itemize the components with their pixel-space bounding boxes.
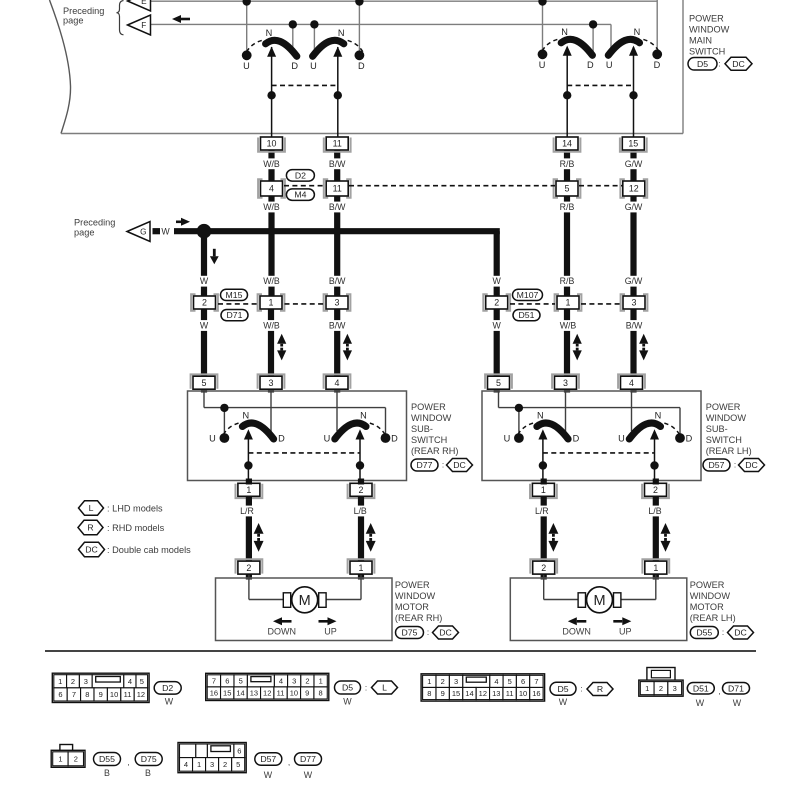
svg-text:D: D — [654, 60, 661, 70]
svg-text:2: 2 — [305, 677, 309, 686]
svg-text:1: 1 — [359, 563, 364, 573]
svg-text:10: 10 — [519, 689, 527, 698]
svg-text:G/W: G/W — [625, 202, 643, 212]
svg-text:SUB-: SUB- — [706, 424, 728, 434]
svg-text:WINDOW: WINDOW — [689, 25, 730, 35]
svg-text:4: 4 — [335, 378, 340, 388]
svg-text:W/B: W/B — [560, 321, 577, 331]
svg-text:(REAR LH): (REAR LH) — [706, 446, 752, 456]
svg-text:2: 2 — [659, 684, 663, 693]
svg-text:D71: D71 — [728, 683, 744, 693]
svg-text:D2: D2 — [295, 171, 306, 181]
svg-text:6: 6 — [225, 677, 229, 686]
svg-text:Preceding: Preceding — [74, 218, 115, 228]
svg-text:4: 4 — [629, 378, 634, 388]
svg-text:D2: D2 — [162, 683, 173, 693]
svg-text:D77: D77 — [300, 754, 316, 764]
svg-text:POWER: POWER — [395, 580, 430, 590]
svg-text:MOTOR: MOTOR — [690, 602, 724, 612]
svg-text::: : — [734, 461, 736, 470]
svg-text::: : — [442, 461, 444, 470]
svg-text:F: F — [141, 21, 146, 30]
svg-text:2: 2 — [541, 563, 546, 573]
svg-text:(REAR RH): (REAR RH) — [411, 446, 458, 456]
svg-text:9: 9 — [99, 690, 103, 699]
svg-text:16: 16 — [532, 689, 540, 698]
svg-text:D: D — [278, 433, 285, 443]
svg-text:DC: DC — [745, 460, 758, 470]
svg-text::: : — [718, 60, 720, 69]
svg-text:W: W — [696, 698, 705, 708]
svg-text:12: 12 — [137, 690, 145, 699]
svg-text:11: 11 — [333, 184, 342, 194]
svg-text:W: W — [493, 321, 502, 331]
svg-text:R: R — [87, 523, 93, 533]
svg-text:15: 15 — [452, 689, 460, 698]
svg-text:2: 2 — [223, 760, 227, 769]
svg-text:3: 3 — [563, 378, 568, 388]
svg-text:POWER: POWER — [689, 14, 724, 24]
svg-text:13: 13 — [492, 689, 500, 698]
svg-text:8: 8 — [85, 690, 89, 699]
svg-text:L/R: L/R — [240, 506, 254, 516]
svg-text:1: 1 — [319, 677, 323, 686]
svg-text:W/B: W/B — [263, 159, 280, 169]
svg-text:W: W — [200, 321, 209, 331]
svg-text:8: 8 — [427, 689, 431, 698]
svg-text:WINDOW: WINDOW — [706, 413, 747, 423]
svg-text:: RHD models: : RHD models — [107, 523, 165, 533]
svg-text:11: 11 — [333, 139, 342, 149]
svg-text:3: 3 — [673, 684, 677, 693]
svg-text:D71: D71 — [227, 310, 243, 320]
svg-text:15: 15 — [223, 689, 231, 698]
svg-text:R/B: R/B — [560, 202, 575, 212]
svg-text:5: 5 — [508, 677, 512, 686]
svg-text::: : — [580, 685, 582, 694]
svg-text:D77: D77 — [417, 460, 433, 470]
svg-text:1: 1 — [58, 677, 62, 686]
svg-text:SUB-: SUB- — [411, 424, 433, 434]
svg-text:12: 12 — [263, 689, 271, 698]
svg-text:10: 10 — [267, 139, 277, 149]
svg-text::: : — [427, 628, 429, 637]
svg-text:D: D — [358, 61, 365, 71]
svg-text:M: M — [299, 593, 311, 609]
svg-text:B: B — [104, 768, 110, 778]
svg-text:MOTOR: MOTOR — [395, 602, 429, 612]
svg-text:R/B: R/B — [560, 276, 575, 286]
svg-text:1: 1 — [246, 485, 251, 495]
svg-text:,: , — [718, 686, 720, 696]
svg-text:N: N — [634, 27, 641, 37]
svg-text:3: 3 — [210, 760, 214, 769]
svg-text:10: 10 — [110, 690, 118, 699]
svg-text:W: W — [200, 276, 209, 286]
svg-text:D: D — [391, 433, 398, 443]
svg-text:1: 1 — [566, 298, 571, 308]
svg-text:POWER: POWER — [411, 402, 446, 412]
svg-text:M: M — [593, 593, 605, 609]
svg-text:B/W: B/W — [626, 321, 643, 331]
svg-text:D75: D75 — [402, 628, 418, 638]
svg-text:MAIN: MAIN — [689, 36, 712, 46]
svg-text:B/W: B/W — [329, 321, 346, 331]
svg-text:POWER: POWER — [690, 580, 725, 590]
svg-text:M4: M4 — [294, 190, 306, 200]
svg-text:4: 4 — [279, 677, 283, 686]
svg-text:D55: D55 — [99, 754, 115, 764]
svg-text:B/W: B/W — [329, 276, 346, 286]
svg-text:1: 1 — [58, 755, 62, 764]
svg-text::: : — [722, 628, 724, 637]
svg-text:13: 13 — [250, 689, 258, 698]
svg-text:N: N — [242, 411, 249, 421]
svg-text:7: 7 — [72, 690, 76, 699]
svg-text:5: 5 — [565, 184, 570, 194]
svg-text:14: 14 — [236, 689, 244, 698]
svg-text:N: N — [655, 411, 662, 421]
svg-text:B/W: B/W — [329, 159, 346, 169]
svg-text:D: D — [587, 60, 594, 70]
svg-text:U: U — [618, 433, 625, 443]
svg-text:N: N — [561, 27, 568, 37]
svg-text:2: 2 — [202, 298, 207, 308]
svg-text:D57: D57 — [709, 460, 725, 470]
svg-text:D5: D5 — [557, 684, 568, 694]
svg-text:SWITCH: SWITCH — [689, 47, 725, 57]
svg-text:U: U — [243, 61, 250, 71]
svg-text:DOWN: DOWN — [268, 627, 297, 637]
svg-text:W: W — [343, 697, 352, 707]
svg-text:U: U — [504, 433, 511, 443]
svg-text:5: 5 — [202, 378, 207, 388]
svg-text:U: U — [539, 60, 546, 70]
svg-text:(REAR LH): (REAR LH) — [690, 613, 736, 623]
svg-text:R/B: R/B — [560, 159, 575, 169]
svg-text:G: G — [140, 228, 146, 237]
svg-text:1: 1 — [653, 563, 658, 573]
svg-text:DC: DC — [734, 628, 747, 638]
svg-text:N: N — [338, 28, 345, 38]
svg-text:4: 4 — [184, 760, 188, 769]
svg-text:B/W: B/W — [329, 202, 346, 212]
svg-text:W: W — [304, 770, 313, 780]
svg-text:5: 5 — [236, 760, 240, 769]
svg-text:D51: D51 — [519, 310, 535, 320]
svg-text:L/R: L/R — [535, 506, 549, 516]
svg-text:3: 3 — [84, 677, 88, 686]
svg-text:3: 3 — [335, 298, 340, 308]
svg-text:: LHD models: : LHD models — [107, 504, 163, 514]
svg-text:8: 8 — [319, 689, 323, 698]
svg-text:14: 14 — [465, 689, 473, 698]
svg-text:L/B: L/B — [648, 506, 661, 516]
svg-text:1: 1 — [197, 760, 201, 769]
svg-text:N: N — [537, 411, 544, 421]
svg-text::: : — [365, 684, 367, 693]
svg-text:,: , — [288, 757, 290, 767]
svg-text:U: U — [324, 433, 331, 443]
svg-text:4: 4 — [494, 677, 498, 686]
svg-text:SWITCH: SWITCH — [411, 435, 447, 445]
svg-text:W/B: W/B — [263, 276, 280, 286]
svg-text:3: 3 — [269, 378, 274, 388]
svg-text:UP: UP — [619, 627, 632, 637]
svg-text:2: 2 — [74, 755, 78, 764]
svg-text:L: L — [382, 683, 387, 693]
svg-text:L: L — [89, 503, 94, 513]
svg-text:2: 2 — [441, 677, 445, 686]
svg-text:1: 1 — [541, 485, 546, 495]
svg-text:D57: D57 — [260, 754, 276, 764]
svg-text:9: 9 — [441, 689, 445, 698]
svg-text:W: W — [165, 697, 174, 707]
svg-text:3: 3 — [292, 677, 296, 686]
svg-text:G/W: G/W — [625, 276, 643, 286]
svg-text:1: 1 — [645, 684, 649, 693]
svg-text:16: 16 — [210, 689, 218, 698]
svg-text:2: 2 — [71, 677, 75, 686]
svg-text:M107: M107 — [517, 290, 539, 300]
svg-text:1: 1 — [427, 677, 431, 686]
svg-text:12: 12 — [479, 689, 487, 698]
svg-text:9: 9 — [305, 689, 309, 698]
svg-text:G/W: G/W — [625, 159, 643, 169]
svg-text:D5: D5 — [697, 59, 708, 69]
svg-text:6: 6 — [58, 690, 62, 699]
svg-text:4: 4 — [128, 677, 132, 686]
svg-text:12: 12 — [629, 184, 639, 194]
svg-text:,: , — [127, 757, 129, 767]
svg-text:E: E — [141, 0, 147, 6]
svg-text:2: 2 — [359, 485, 364, 495]
svg-text:: Double cab models: : Double cab models — [107, 545, 191, 555]
svg-text:D: D — [573, 433, 580, 443]
svg-text:DC: DC — [439, 628, 452, 638]
svg-text:2: 2 — [494, 298, 499, 308]
svg-text:14: 14 — [562, 139, 572, 149]
svg-text:W/B: W/B — [263, 321, 280, 331]
svg-text:(REAR RH): (REAR RH) — [395, 613, 442, 623]
svg-text:D51: D51 — [693, 683, 709, 693]
svg-text:page: page — [63, 16, 83, 26]
svg-text:M15: M15 — [226, 290, 243, 300]
svg-text:11: 11 — [277, 689, 285, 698]
svg-text:2: 2 — [653, 485, 658, 495]
svg-text:WINDOW: WINDOW — [690, 591, 731, 601]
svg-text:11: 11 — [506, 689, 514, 698]
svg-text:W: W — [493, 276, 502, 286]
svg-text:5: 5 — [140, 677, 144, 686]
svg-text:10: 10 — [290, 689, 298, 698]
svg-text:UP: UP — [324, 627, 337, 637]
svg-text:6: 6 — [521, 677, 525, 686]
svg-text:W: W — [264, 770, 273, 780]
svg-text:B: B — [145, 768, 151, 778]
svg-text:W: W — [559, 697, 568, 707]
svg-text:1: 1 — [269, 298, 274, 308]
svg-text:5: 5 — [239, 677, 243, 686]
svg-text:11: 11 — [124, 690, 132, 699]
svg-text:W: W — [161, 227, 170, 237]
svg-text:POWER: POWER — [706, 402, 741, 412]
svg-text:D: D — [291, 61, 298, 71]
svg-text:5: 5 — [496, 378, 501, 388]
svg-text:D5: D5 — [342, 683, 353, 693]
svg-text:W/B: W/B — [263, 202, 280, 212]
svg-text:DC: DC — [85, 545, 98, 555]
svg-text:U: U — [606, 60, 613, 70]
svg-text:7: 7 — [534, 677, 538, 686]
svg-text:WINDOW: WINDOW — [411, 413, 452, 423]
svg-text:D75: D75 — [141, 754, 157, 764]
svg-text:6: 6 — [237, 747, 241, 756]
svg-text:4: 4 — [269, 184, 274, 194]
svg-text:U: U — [310, 61, 317, 71]
svg-text:3: 3 — [632, 298, 637, 308]
svg-text:3: 3 — [454, 677, 458, 686]
svg-text:L/B: L/B — [354, 506, 367, 516]
svg-text:R: R — [597, 684, 603, 694]
svg-text:D: D — [686, 433, 693, 443]
svg-text:SWITCH: SWITCH — [706, 435, 742, 445]
svg-text:WINDOW: WINDOW — [395, 591, 436, 601]
svg-text:U: U — [209, 433, 216, 443]
svg-text:DC: DC — [732, 59, 745, 69]
svg-text:page: page — [74, 228, 94, 238]
svg-text:W: W — [733, 698, 742, 708]
svg-text:DC: DC — [453, 460, 466, 470]
svg-text:2: 2 — [246, 563, 251, 573]
svg-text:N: N — [360, 411, 367, 421]
svg-text:Preceding: Preceding — [63, 6, 104, 16]
svg-text:N: N — [266, 28, 273, 38]
svg-text:D55: D55 — [696, 628, 712, 638]
svg-text:DOWN: DOWN — [562, 627, 591, 637]
svg-text:15: 15 — [628, 139, 638, 149]
svg-text:7: 7 — [212, 677, 216, 686]
